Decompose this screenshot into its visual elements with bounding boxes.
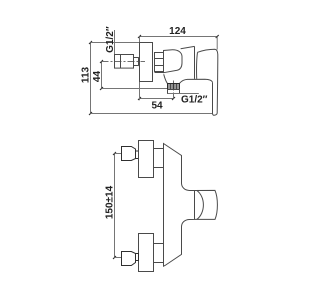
handle knob (end view) xyxy=(195,190,218,219)
outlet centerline xyxy=(173,81,175,101)
handle knob face curve xyxy=(197,191,204,220)
outlet collar xyxy=(168,90,180,94)
mixer body (front view) xyxy=(164,144,195,267)
inlet thread cylinder xyxy=(115,55,134,69)
outlet thread (hatched) xyxy=(168,84,180,90)
tick 124 right xyxy=(216,35,219,38)
tick 54 left xyxy=(138,97,141,100)
upper nut face line xyxy=(135,151,137,159)
svg-text:44: 44 xyxy=(92,71,103,83)
svg-text:113: 113 xyxy=(81,66,92,83)
extension line 113 top xyxy=(91,42,140,44)
inlet neck flare bottom xyxy=(139,64,140,67)
inlet centerline xyxy=(102,61,146,63)
svg-text:150±14: 150±14 xyxy=(105,185,116,219)
tick 113 top xyxy=(89,41,92,44)
extension line 124 right xyxy=(216,37,218,50)
dimension 124 line xyxy=(140,36,218,38)
upper escutcheon xyxy=(139,141,154,178)
union nut connector xyxy=(155,53,164,72)
G1/2 top extension line xyxy=(114,30,116,55)
extension line 54 left xyxy=(139,82,141,101)
dimension 54 line xyxy=(140,98,174,100)
lever arm front edge xyxy=(194,46,196,79)
tick 124 left xyxy=(138,35,141,38)
extension line 150 top xyxy=(115,153,122,155)
dimension 44 line xyxy=(101,62,103,89)
tick 44 top xyxy=(100,60,103,63)
lower boss xyxy=(154,243,164,245)
inlet neck flare top xyxy=(139,56,140,59)
extension line 150 bottom xyxy=(115,257,123,259)
body silhouette behind connector xyxy=(155,72,164,74)
upper boss xyxy=(154,148,164,150)
handle blade xyxy=(213,60,218,115)
tick 150 bottom xyxy=(113,256,116,259)
handle cap inner edge xyxy=(196,52,199,79)
handle cap top edge xyxy=(198,49,218,60)
tick 44 bottom xyxy=(100,87,103,90)
handle underside xyxy=(180,79,213,83)
outlet shoulder left xyxy=(164,74,168,83)
mixer body (side view) xyxy=(164,50,183,73)
svg-text:54: 54 xyxy=(151,101,163,112)
lower eccentric nut xyxy=(122,252,139,266)
lever arm top edge xyxy=(181,46,195,48)
tick 113 bottom xyxy=(89,112,92,115)
lower escutcheon xyxy=(139,234,154,272)
inlet neck xyxy=(134,58,139,66)
tick 150 top xyxy=(113,152,116,155)
G1/2 bottom leader xyxy=(168,93,199,95)
tick 54 right xyxy=(172,97,175,100)
extension line 44 bottom xyxy=(102,88,168,90)
extension line 124 left xyxy=(139,37,141,43)
extension line 113 bottom xyxy=(91,113,213,115)
lower nut face line xyxy=(135,254,137,261)
wall flange plate xyxy=(140,43,153,82)
inlet thread chamfer line xyxy=(120,55,122,69)
dimension 150±14 line xyxy=(114,154,116,258)
upper eccentric nut xyxy=(122,147,139,161)
svg-text:G1/2″: G1/2″ xyxy=(181,95,208,106)
svg-text:124: 124 xyxy=(169,26,186,37)
dimension 113 line xyxy=(90,43,92,114)
